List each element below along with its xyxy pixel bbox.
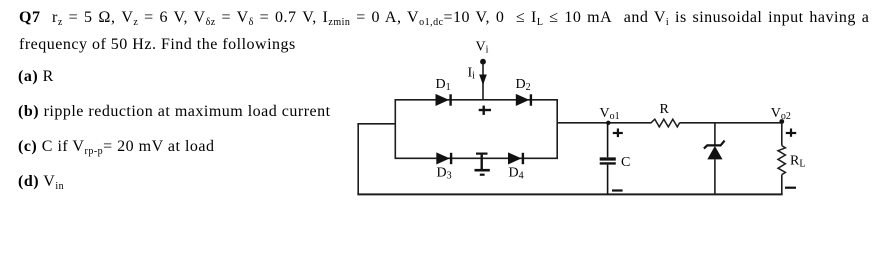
plus sign at Vo1 [613, 129, 623, 138]
item (d) [18, 174, 64, 190]
node Vo1 [600, 106, 620, 125]
item (a) [18, 69, 54, 85]
svg-text:D3: D3 [437, 166, 452, 182]
wire: bottom rail [357, 193, 782, 195]
ground at bridge bottom center [475, 154, 490, 175]
wire: left AC tap horizontal [357, 123, 395, 125]
svg-text:Vo2: Vo2 [771, 106, 791, 122]
problem statement line 2 [19, 37, 296, 53]
svg-text:D2: D2 [516, 77, 531, 93]
wire: bridge top [395, 99, 559, 101]
plus sign below bridge top wire [479, 106, 491, 115]
svg-text:Vo1: Vo1 [600, 106, 620, 122]
problem statement line 1 [19, 10, 869, 26]
minus sign above rail near capacitor [612, 189, 623, 191]
wire: output middle (bridge to R) [557, 122, 650, 124]
wire: R to Vo2 [680, 122, 783, 124]
resistor R [651, 102, 680, 127]
node Vi terminal with input arrow [468, 40, 489, 100]
wire: bridge right vertical [556, 99, 558, 158]
plus sign at Vo2 [786, 129, 796, 137]
svg-text:Ii: Ii [468, 66, 476, 82]
wire: bridge left vertical [394, 99, 396, 158]
item (c) [18, 139, 214, 155]
minus sign above rail near RL [785, 187, 796, 189]
svg-text:D1: D1 [436, 77, 451, 93]
diode D1 [436, 77, 451, 106]
capacitor C [600, 123, 631, 195]
zener diode [704, 123, 725, 195]
svg-text:D4: D4 [509, 166, 524, 182]
svg-text:RL: RL [790, 154, 805, 170]
diode D2 [516, 77, 531, 106]
svg-text:Vi: Vi [476, 40, 489, 56]
resistor RL [778, 123, 805, 195]
wire: outer left vertical [357, 124, 359, 195]
diode D3 [436, 152, 451, 181]
diode D4 [508, 152, 524, 181]
node Vo2 [771, 106, 791, 124]
wire: bridge bottom [395, 157, 559, 159]
svg-text:C: C [621, 155, 630, 170]
item (b) [18, 104, 331, 120]
svg-text:R: R [660, 102, 670, 117]
